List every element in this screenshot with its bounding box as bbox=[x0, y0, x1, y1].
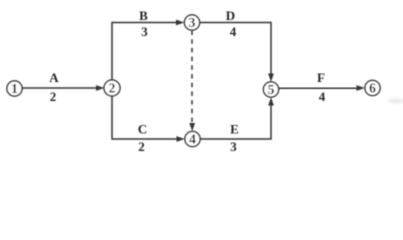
svg-text:6: 6 bbox=[369, 81, 376, 96]
svg-text:3: 3 bbox=[141, 24, 148, 39]
svg-text:2: 2 bbox=[109, 81, 116, 96]
svg-text:3: 3 bbox=[189, 15, 196, 30]
svg-text:B: B bbox=[139, 8, 148, 23]
svg-text:C: C bbox=[138, 122, 147, 137]
svg-text:1: 1 bbox=[11, 81, 18, 96]
svg-text:2: 2 bbox=[50, 89, 57, 104]
svg-text:4: 4 bbox=[230, 24, 237, 39]
svg-text:A: A bbox=[49, 70, 59, 85]
svg-text:F: F bbox=[317, 70, 325, 85]
svg-text:D: D bbox=[226, 8, 235, 23]
svg-text:4: 4 bbox=[189, 132, 196, 147]
svg-text:3: 3 bbox=[230, 139, 237, 154]
svg-text:E: E bbox=[230, 122, 239, 137]
svg-text:4: 4 bbox=[319, 89, 326, 104]
svg-text:5: 5 bbox=[268, 82, 275, 97]
svg-text:2: 2 bbox=[138, 139, 145, 154]
